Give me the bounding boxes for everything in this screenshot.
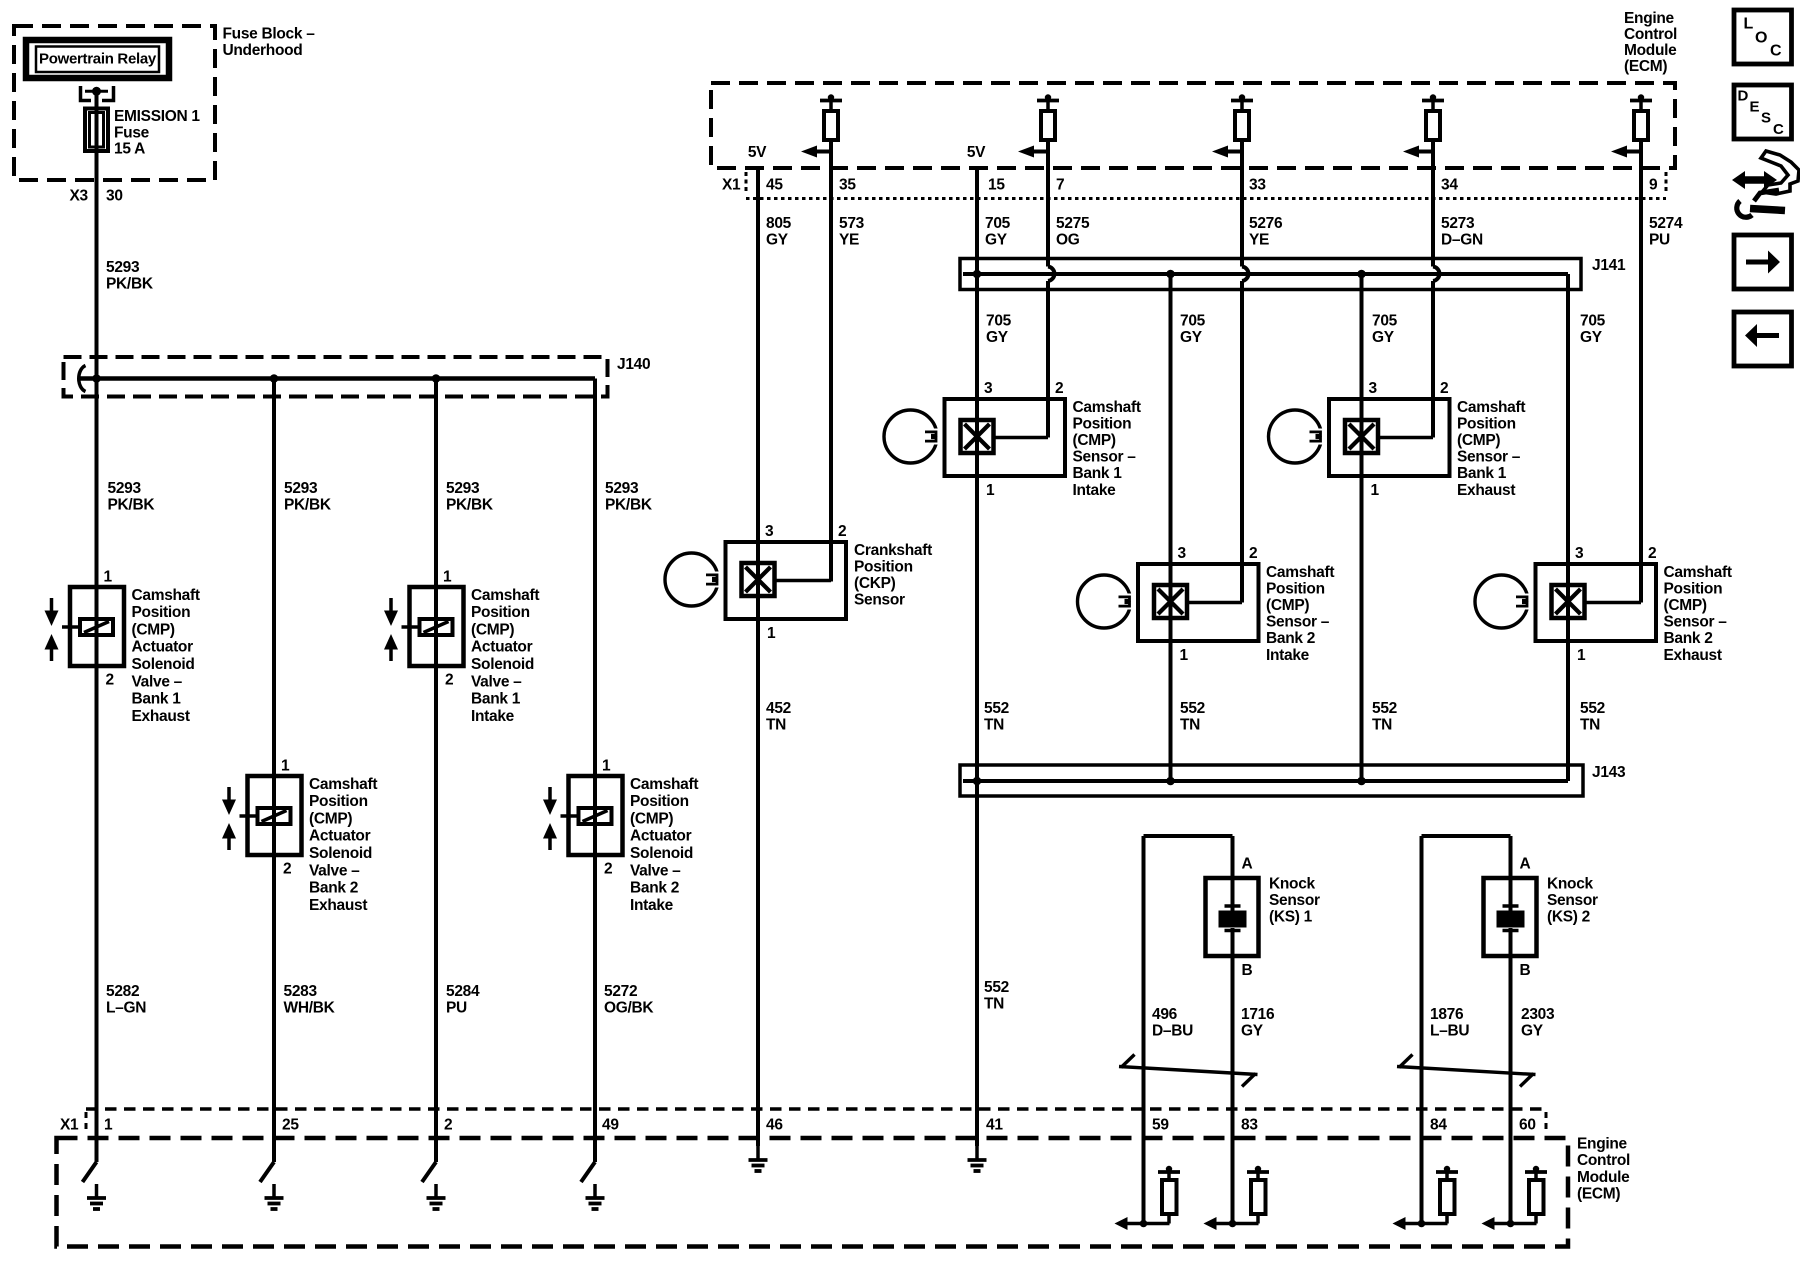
svg-text:3: 3 bbox=[1178, 545, 1187, 562]
svg-text:1: 1 bbox=[602, 757, 611, 774]
svg-text:2: 2 bbox=[1055, 380, 1063, 397]
svg-text:X1: X1 bbox=[60, 1116, 79, 1133]
svg-text:Bank 1: Bank 1 bbox=[1457, 465, 1507, 482]
svg-text:1: 1 bbox=[1371, 482, 1380, 499]
svg-text:Sensor: Sensor bbox=[1269, 892, 1320, 909]
svg-text:(CMP): (CMP) bbox=[1664, 597, 1707, 614]
svg-text:WH/BK: WH/BK bbox=[284, 999, 336, 1016]
svg-text:2: 2 bbox=[1249, 545, 1257, 562]
svg-text:1: 1 bbox=[1180, 647, 1189, 664]
svg-text:705: 705 bbox=[1580, 312, 1606, 329]
svg-text:Camshaft: Camshaft bbox=[1664, 564, 1732, 581]
svg-text:Control: Control bbox=[1624, 26, 1677, 43]
svg-text:Position: Position bbox=[1073, 415, 1132, 432]
svg-text:(KS) 2: (KS) 2 bbox=[1547, 909, 1590, 926]
svg-text:3: 3 bbox=[984, 380, 993, 397]
svg-text:Exhaust: Exhaust bbox=[1457, 482, 1515, 499]
svg-text:552: 552 bbox=[1580, 700, 1605, 717]
svg-text:1: 1 bbox=[104, 568, 113, 585]
svg-text:Engine: Engine bbox=[1577, 1135, 1628, 1152]
svg-text:OG/BK: OG/BK bbox=[604, 999, 654, 1016]
svg-text:TN: TN bbox=[1372, 716, 1392, 733]
svg-text:1: 1 bbox=[104, 1116, 113, 1133]
svg-text:GY: GY bbox=[1180, 329, 1203, 346]
svg-text:Control: Control bbox=[1577, 1152, 1630, 1169]
svg-text:33: 33 bbox=[1249, 176, 1266, 193]
svg-text:GY: GY bbox=[1580, 329, 1603, 346]
svg-text:TN: TN bbox=[1580, 716, 1600, 733]
svg-text:705: 705 bbox=[986, 312, 1012, 329]
svg-text:YE: YE bbox=[1249, 231, 1269, 248]
svg-text:5V: 5V bbox=[967, 144, 986, 161]
svg-text:2303: 2303 bbox=[1521, 1006, 1555, 1023]
svg-text:L: L bbox=[1744, 15, 1754, 32]
svg-text:L–BU: L–BU bbox=[1430, 1022, 1469, 1039]
svg-text:TN: TN bbox=[766, 716, 786, 733]
svg-text:35: 35 bbox=[839, 176, 856, 193]
svg-text:PU: PU bbox=[446, 999, 467, 1016]
svg-text:Intake: Intake bbox=[1073, 482, 1117, 499]
svg-text:Exhaust: Exhaust bbox=[309, 897, 367, 914]
svg-text:2: 2 bbox=[1648, 545, 1656, 562]
svg-text:552: 552 bbox=[1372, 700, 1397, 717]
svg-text:GY: GY bbox=[1241, 1022, 1264, 1039]
svg-text:Intake: Intake bbox=[471, 708, 515, 725]
svg-text:Position: Position bbox=[132, 604, 191, 621]
svg-text:Sensor –: Sensor – bbox=[1457, 449, 1521, 466]
svg-text:1: 1 bbox=[1577, 647, 1586, 664]
svg-text:Bank 1: Bank 1 bbox=[132, 691, 182, 708]
svg-text:Fuse: Fuse bbox=[114, 124, 150, 141]
svg-text:(ECM): (ECM) bbox=[1577, 1186, 1620, 1203]
svg-text:Camshaft: Camshaft bbox=[1266, 564, 1334, 581]
svg-text:84: 84 bbox=[1430, 1116, 1447, 1133]
svg-text:5293: 5293 bbox=[106, 259, 140, 276]
svg-text:1: 1 bbox=[281, 757, 290, 774]
svg-text:PK/BK: PK/BK bbox=[106, 275, 154, 292]
svg-text:Position: Position bbox=[309, 793, 368, 810]
svg-text:O: O bbox=[1755, 29, 1767, 46]
svg-text:Position: Position bbox=[1457, 415, 1516, 432]
svg-text:(CMP): (CMP) bbox=[1073, 432, 1116, 449]
svg-text:705: 705 bbox=[1180, 312, 1206, 329]
svg-text:GY: GY bbox=[766, 231, 789, 248]
svg-text:805: 805 bbox=[766, 215, 792, 232]
svg-text:Bank 2: Bank 2 bbox=[309, 880, 358, 897]
svg-text:GY: GY bbox=[1372, 329, 1395, 346]
svg-text:PK/BK: PK/BK bbox=[446, 496, 494, 513]
svg-text:Knock: Knock bbox=[1269, 875, 1316, 892]
svg-text:1: 1 bbox=[443, 568, 452, 585]
svg-text:Valve –: Valve – bbox=[471, 673, 522, 690]
svg-text:EMISSION 1: EMISSION 1 bbox=[114, 108, 200, 125]
svg-text:2: 2 bbox=[838, 523, 846, 540]
svg-text:Sensor –: Sensor – bbox=[1664, 614, 1728, 631]
svg-text:2: 2 bbox=[444, 1116, 452, 1133]
svg-text:Bank 1: Bank 1 bbox=[1073, 465, 1123, 482]
svg-text:7: 7 bbox=[1056, 176, 1064, 193]
svg-text:552: 552 bbox=[1180, 700, 1205, 717]
svg-text:Actuator: Actuator bbox=[132, 639, 194, 656]
svg-text:5272: 5272 bbox=[604, 983, 637, 1000]
svg-text:Actuator: Actuator bbox=[471, 639, 533, 656]
svg-text:A: A bbox=[1242, 855, 1253, 872]
svg-text:49: 49 bbox=[602, 1116, 619, 1133]
svg-text:59: 59 bbox=[1152, 1116, 1169, 1133]
svg-text:Sensor: Sensor bbox=[854, 592, 905, 609]
svg-text:PK/BK: PK/BK bbox=[108, 496, 156, 513]
svg-text:D: D bbox=[1738, 87, 1749, 104]
svg-text:5275: 5275 bbox=[1056, 215, 1090, 232]
svg-text:Bank 2: Bank 2 bbox=[1664, 630, 1713, 647]
svg-text:Exhaust: Exhaust bbox=[132, 708, 190, 725]
svg-text:Knock: Knock bbox=[1547, 875, 1594, 892]
svg-text:705: 705 bbox=[1372, 312, 1398, 329]
svg-text:5293: 5293 bbox=[108, 480, 142, 497]
svg-text:Fuse Block –: Fuse Block – bbox=[223, 25, 316, 42]
svg-text:3: 3 bbox=[765, 523, 774, 540]
svg-text:(CMP): (CMP) bbox=[1457, 432, 1500, 449]
svg-text:GY: GY bbox=[985, 231, 1008, 248]
svg-text:Solenoid: Solenoid bbox=[132, 656, 195, 673]
svg-text:(CMP): (CMP) bbox=[309, 810, 352, 827]
svg-text:5273: 5273 bbox=[1441, 215, 1475, 232]
svg-text:573: 573 bbox=[839, 215, 865, 232]
svg-text:PK/BK: PK/BK bbox=[284, 496, 332, 513]
svg-text:Camshaft: Camshaft bbox=[471, 587, 539, 604]
svg-text:D–BU: D–BU bbox=[1152, 1022, 1193, 1039]
svg-text:Sensor: Sensor bbox=[1547, 892, 1598, 909]
svg-text:46: 46 bbox=[766, 1116, 783, 1133]
svg-text:(ECM): (ECM) bbox=[1624, 58, 1667, 75]
svg-text:Sensor –: Sensor – bbox=[1266, 614, 1330, 631]
svg-text:GY: GY bbox=[986, 329, 1009, 346]
svg-text:Bank 2: Bank 2 bbox=[1266, 630, 1315, 647]
svg-text:25: 25 bbox=[282, 1116, 299, 1133]
svg-text:(CMP): (CMP) bbox=[630, 810, 673, 827]
svg-text:1876: 1876 bbox=[1430, 1006, 1464, 1023]
svg-text:Camshaft: Camshaft bbox=[1457, 399, 1525, 416]
svg-text:1: 1 bbox=[767, 625, 776, 642]
svg-text:Solenoid: Solenoid bbox=[630, 845, 693, 862]
svg-text:Sensor –: Sensor – bbox=[1073, 449, 1137, 466]
svg-text:3: 3 bbox=[1369, 380, 1378, 397]
svg-text:Bank 2: Bank 2 bbox=[630, 880, 679, 897]
svg-text:5274: 5274 bbox=[1649, 215, 1683, 232]
svg-text:TN: TN bbox=[984, 995, 1004, 1012]
svg-text:Camshaft: Camshaft bbox=[1073, 399, 1141, 416]
svg-text:Engine: Engine bbox=[1624, 10, 1675, 27]
svg-text:Camshaft: Camshaft bbox=[630, 776, 698, 793]
svg-text:552: 552 bbox=[984, 979, 1009, 996]
svg-text:Position: Position bbox=[1266, 580, 1325, 597]
svg-text:B: B bbox=[1242, 962, 1253, 979]
svg-text:(KS) 1: (KS) 1 bbox=[1269, 909, 1313, 926]
svg-text:Module: Module bbox=[1624, 42, 1677, 59]
svg-text:2: 2 bbox=[1440, 380, 1448, 397]
svg-text:2: 2 bbox=[106, 671, 114, 688]
svg-text:60: 60 bbox=[1519, 1116, 1536, 1133]
svg-text:Exhaust: Exhaust bbox=[1664, 647, 1722, 664]
svg-text:OG: OG bbox=[1056, 231, 1080, 248]
svg-text:34: 34 bbox=[1441, 176, 1458, 193]
svg-text:15: 15 bbox=[988, 176, 1005, 193]
svg-text:Underhood: Underhood bbox=[223, 42, 303, 59]
svg-text:5293: 5293 bbox=[284, 480, 318, 497]
svg-text:D–GN: D–GN bbox=[1441, 231, 1483, 248]
svg-text:Intake: Intake bbox=[1266, 647, 1310, 664]
svg-text:5293: 5293 bbox=[605, 480, 639, 497]
svg-text:Camshaft: Camshaft bbox=[132, 587, 200, 604]
svg-text:J143: J143 bbox=[1592, 764, 1626, 781]
svg-text:Intake: Intake bbox=[630, 897, 674, 914]
svg-text:Camshaft: Camshaft bbox=[309, 776, 377, 793]
svg-text:J141: J141 bbox=[1592, 257, 1626, 274]
svg-text:3: 3 bbox=[1575, 545, 1584, 562]
svg-text:Valve –: Valve – bbox=[630, 862, 681, 879]
svg-text:Valve –: Valve – bbox=[309, 862, 360, 879]
svg-text:Solenoid: Solenoid bbox=[471, 656, 534, 673]
svg-text:S: S bbox=[1761, 109, 1771, 126]
svg-text:9: 9 bbox=[1649, 176, 1658, 193]
svg-text:(CKP): (CKP) bbox=[854, 575, 896, 592]
svg-text:5284: 5284 bbox=[446, 983, 480, 1000]
svg-text:Crankshaft: Crankshaft bbox=[854, 542, 932, 559]
svg-text:A: A bbox=[1520, 855, 1531, 872]
svg-text:5293: 5293 bbox=[446, 480, 480, 497]
svg-text:Position: Position bbox=[471, 604, 530, 621]
svg-text:Module: Module bbox=[1577, 1169, 1630, 1186]
svg-text:45: 45 bbox=[766, 176, 783, 193]
svg-text:GY: GY bbox=[1521, 1022, 1544, 1039]
svg-text:41: 41 bbox=[986, 1116, 1003, 1133]
svg-text:E: E bbox=[1750, 98, 1760, 115]
svg-text:2: 2 bbox=[445, 671, 453, 688]
svg-text:X1: X1 bbox=[722, 176, 741, 193]
svg-text:L–GN: L–GN bbox=[106, 999, 146, 1016]
svg-text:J140: J140 bbox=[617, 356, 650, 373]
svg-text:83: 83 bbox=[1241, 1116, 1258, 1133]
svg-text:Valve –: Valve – bbox=[132, 673, 183, 690]
svg-text:PK/BK: PK/BK bbox=[605, 496, 653, 513]
svg-text:TN: TN bbox=[1180, 716, 1200, 733]
svg-text:496: 496 bbox=[1152, 1006, 1178, 1023]
svg-text:30: 30 bbox=[106, 187, 123, 204]
svg-text:(CMP): (CMP) bbox=[471, 621, 514, 638]
svg-text:C: C bbox=[1773, 121, 1784, 138]
svg-text:2: 2 bbox=[604, 860, 612, 877]
svg-text:15 A: 15 A bbox=[114, 140, 145, 157]
svg-text:5276: 5276 bbox=[1249, 215, 1283, 232]
svg-text:Actuator: Actuator bbox=[309, 828, 371, 845]
svg-text:TN: TN bbox=[984, 716, 1004, 733]
svg-text:(CMP): (CMP) bbox=[1266, 597, 1309, 614]
svg-text:C: C bbox=[1770, 42, 1782, 59]
svg-text:B: B bbox=[1520, 962, 1531, 979]
svg-text:Solenoid: Solenoid bbox=[309, 845, 372, 862]
svg-text:PU: PU bbox=[1649, 231, 1670, 248]
svg-text:Powertrain Relay: Powertrain Relay bbox=[39, 50, 157, 67]
svg-text:Bank 1: Bank 1 bbox=[471, 691, 521, 708]
svg-text:Position: Position bbox=[1664, 580, 1723, 597]
svg-text:5V: 5V bbox=[748, 144, 767, 161]
svg-text:705: 705 bbox=[985, 215, 1011, 232]
svg-text:YE: YE bbox=[839, 231, 859, 248]
svg-text:(CMP): (CMP) bbox=[132, 621, 175, 638]
svg-text:1716: 1716 bbox=[1241, 1006, 1275, 1023]
svg-text:5282: 5282 bbox=[106, 983, 139, 1000]
svg-text:5283: 5283 bbox=[284, 983, 318, 1000]
svg-text:552: 552 bbox=[984, 700, 1009, 717]
svg-text:452: 452 bbox=[766, 700, 791, 717]
svg-text:X3: X3 bbox=[70, 187, 89, 204]
svg-text:Position: Position bbox=[854, 558, 913, 575]
svg-text:2: 2 bbox=[283, 860, 291, 877]
svg-text:1: 1 bbox=[986, 482, 995, 499]
svg-text:Position: Position bbox=[630, 793, 689, 810]
svg-text:Actuator: Actuator bbox=[630, 828, 692, 845]
